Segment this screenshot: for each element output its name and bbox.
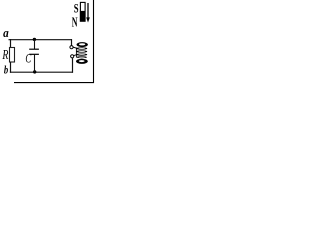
junction node dot top bbox=[33, 38, 36, 41]
inductor coil L turn 1 top ellipse bbox=[77, 42, 88, 47]
wire bottom horizontal bbox=[10, 71, 73, 73]
wire right vertical drop to coil top terminal bbox=[71, 39, 73, 46]
capacitor C bottom lead wire bbox=[34, 54, 36, 72]
inductor coil L turn 6 bottom ellipse bbox=[76, 59, 88, 64]
arrow head bbox=[86, 17, 90, 22]
wire connector top terminal to coil bbox=[73, 47, 77, 48]
inductor coil L left connector nubs bbox=[75, 48, 77, 58]
svg-text:C: C bbox=[25, 51, 31, 65]
wire bottom terminal drop to bottom wire bbox=[72, 58, 74, 73]
border bottom edge bbox=[14, 82, 94, 84]
coil top terminal circle bbox=[70, 46, 73, 49]
svg-text:a: a bbox=[3, 26, 9, 40]
resistor R bbox=[10, 48, 15, 63]
arrow shaft (magnet moving down) bbox=[87, 3, 89, 18]
wire left vertical lower segment bbox=[10, 62, 12, 73]
inductor coil L turn 2 bbox=[76, 47, 87, 49]
inductor coil L turn 3 bbox=[76, 50, 87, 52]
capacitor C top plate bbox=[29, 48, 39, 50]
border right edge bbox=[93, 0, 95, 83]
svg-text:N: N bbox=[72, 14, 78, 29]
magnet outline (S pole upper, white) bbox=[80, 2, 85, 21]
wire left vertical upper segment bbox=[10, 39, 12, 48]
svg-text:b: b bbox=[4, 63, 8, 77]
wire connector bottom terminal to coil bbox=[73, 55, 76, 56]
junction node dot bottom bbox=[33, 70, 36, 73]
inductor coil L turn 5 bbox=[76, 56, 87, 58]
capacitor C top lead wire bbox=[34, 40, 36, 50]
capacitor C bottom plate bbox=[29, 53, 39, 55]
svg-text:R: R bbox=[2, 47, 9, 62]
coil bottom terminal circle bbox=[71, 55, 74, 58]
wire top horizontal a-to-coil bbox=[9, 39, 72, 41]
magnet N pole lower black fill bbox=[80, 11, 86, 22]
inductor coil L turn 4 bbox=[76, 53, 87, 55]
svg-text:S: S bbox=[74, 1, 79, 15]
